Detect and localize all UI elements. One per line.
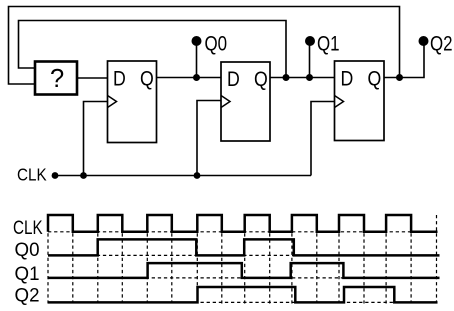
wire: CLK branch to FF1 clock pin: [84, 102, 108, 176]
wire: FF3 Q output to node Q2: [384, 41, 424, 78]
junction dot: outer feedback tap on FF3.Q wire: [396, 74, 403, 81]
node Q0 terminal dot: [192, 36, 202, 46]
svg-text:Q2: Q2: [15, 286, 40, 307]
svg-text:D: D: [113, 67, 126, 90]
svg-text:?: ?: [50, 65, 64, 93]
mystery feedback gate ?: [35, 62, 77, 95]
junction dot CLK to FF2: [194, 172, 201, 179]
timing grid: vertical dashed lines: [48, 215, 437, 304]
svg-text:CLK: CLK: [17, 164, 47, 184]
svg-text:Q: Q: [254, 68, 268, 91]
waveform Q2 trace: [48, 287, 438, 302]
svg-text:Q2: Q2: [430, 32, 453, 56]
node Q1 terminal dot: [305, 36, 315, 46]
svg-text:Q0: Q0: [205, 32, 228, 56]
svg-text:Q: Q: [368, 67, 382, 90]
junction dot on FF1.Q wire (node Q0): [193, 74, 200, 81]
D flip-flop FF1: [108, 61, 157, 143]
D flip-flop FF2: [221, 62, 270, 141]
wire: FF2 Q output to FF3 D input: [270, 77, 335, 79]
svg-text:Q: Q: [140, 67, 154, 90]
node Q2 terminal dot: [419, 36, 429, 46]
svg-text:D: D: [341, 67, 354, 90]
waveform CLK trace: [48, 215, 438, 232]
wire: node Q1 stub up: [309, 41, 311, 78]
waveform Q1 trace: [48, 263, 440, 278]
svg-text:Q1: Q1: [317, 32, 340, 56]
junction dot CLK to FF1: [80, 172, 87, 179]
wire: node Q0 stub up: [196, 41, 198, 78]
wire: inner feedback from node Q1 branch to ? input (top): [19, 21, 287, 78]
svg-text:Q1: Q1: [15, 264, 40, 285]
junction dot on FF2.Q wire (node Q1): [306, 74, 313, 81]
svg-text:Q0: Q0: [15, 240, 40, 261]
wire: FF1 Q output to FF2 D input: [157, 77, 222, 79]
svg-text:D: D: [227, 68, 240, 91]
waveform Q0 trace: [48, 239, 440, 255]
wire: outer feedback from node Q2 branch to ? input (bottom): [9, 7, 400, 85]
wire: ? output to FF1 D input: [77, 77, 108, 79]
CLK terminal dot: [52, 172, 59, 179]
timing grid: horizontal dashed baselines: [48, 232, 437, 303]
D flip-flop FF3: [335, 61, 385, 141]
svg-text:CLK: CLK: [13, 218, 43, 239]
wire: CLK bus rise to FF3 clock pin: [311, 102, 335, 176]
wire: CLK bus: [55, 175, 311, 177]
junction dot: inner feedback tap on FF2.Q wire: [283, 74, 290, 81]
wire: CLK branch to FF2 clock pin: [197, 101, 221, 176]
